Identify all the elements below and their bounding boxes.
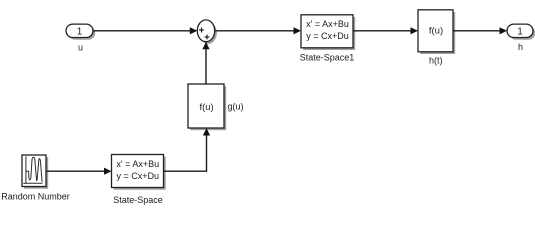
svg-text:x' = Ax+Bu: x' = Ax+Bu	[306, 19, 349, 29]
svg-text:u: u	[78, 43, 83, 53]
svg-text:g(u): g(u)	[228, 102, 244, 112]
svg-text:h(t): h(t)	[429, 56, 443, 66]
svg-text:y = Cx+Du: y = Cx+Du	[117, 171, 160, 181]
svg-text:x' = Ax+Bu: x' = Ax+Bu	[116, 159, 159, 169]
svg-text:f(u): f(u)	[199, 102, 213, 113]
svg-text:h: h	[518, 42, 523, 52]
svg-text:f(u): f(u)	[429, 26, 443, 37]
svg-text:1: 1	[517, 26, 523, 37]
svg-text:1: 1	[77, 26, 83, 37]
svg-text:Random Number: Random Number	[1, 191, 70, 201]
svg-text:State-Space: State-Space	[113, 195, 163, 205]
svg-text:y = Cx+Du: y = Cx+Du	[306, 31, 349, 41]
svg-text:State-Space1: State-Space1	[300, 52, 355, 62]
